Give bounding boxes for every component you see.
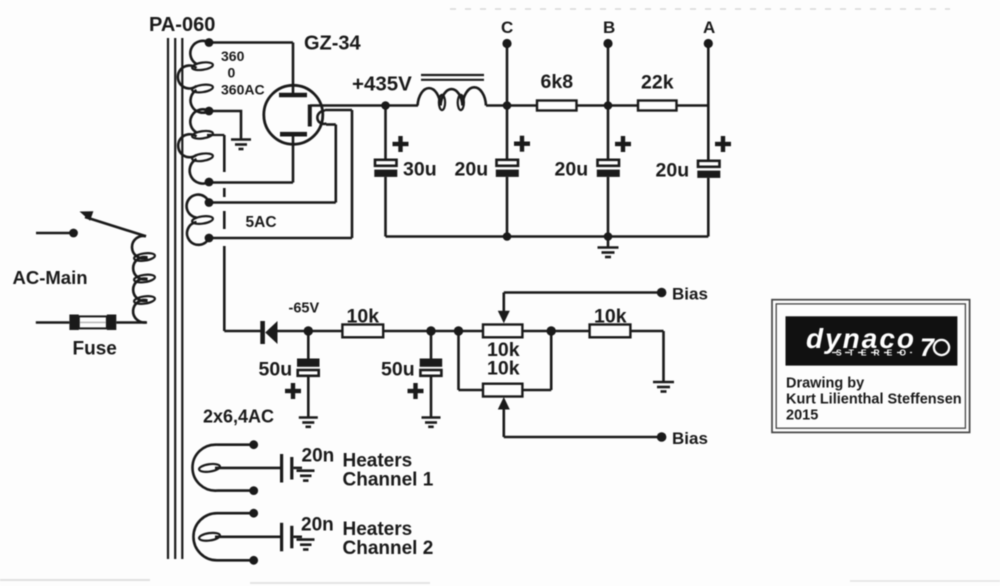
svg-text:C: C [501,18,513,37]
svg-text:GZ-34: GZ-34 [304,33,362,55]
svg-text:20n: 20n [301,515,334,536]
svg-text:Fuse: Fuse [73,339,117,360]
svg-text:50u: 50u [259,359,293,381]
svg-text:B: B [603,18,615,37]
svg-text:0: 0 [228,65,236,81]
svg-text:Channel 1: Channel 1 [343,470,434,491]
svg-text:20u: 20u [455,159,489,181]
svg-text:PA-060: PA-060 [149,14,215,36]
svg-text:Bias: Bias [672,285,708,304]
svg-text:50u: 50u [381,359,415,381]
svg-text:Heaters: Heaters [343,519,413,540]
svg-text:2x6,4AC: 2x6,4AC [203,407,274,427]
svg-text:22k: 22k [641,72,674,94]
svg-text:Drawing by: Drawing by [786,376,864,392]
svg-text:5AC: 5AC [246,214,277,231]
svg-text:20u: 20u [656,160,690,182]
svg-text:30u: 30u [403,159,437,181]
svg-text:360: 360 [221,48,245,64]
svg-text:-65V: -65V [289,301,320,317]
svg-text:6k8: 6k8 [541,71,574,93]
svg-text:20n: 20n [302,446,335,467]
svg-text:20u: 20u [555,159,589,181]
svg-text:2015: 2015 [786,408,818,424]
svg-text:360AC: 360AC [221,82,265,98]
svg-text:Bias: Bias [672,429,708,448]
svg-text:Channel 2: Channel 2 [343,538,434,559]
svg-text:10k: 10k [594,306,627,328]
svg-text:10k: 10k [347,306,380,328]
svg-text:+435V: +435V [352,73,412,96]
svg-text:A: A [703,18,715,37]
svg-text:STEREO: STEREO [836,348,913,358]
svg-text:AC-Main: AC-Main [13,267,88,288]
svg-text:7: 7 [920,334,935,362]
svg-text:Heaters: Heaters [343,451,413,472]
svg-text:Kurt Lilienthal Steffensen: Kurt Lilienthal Steffensen [786,392,962,408]
svg-text:10k: 10k [487,358,520,380]
